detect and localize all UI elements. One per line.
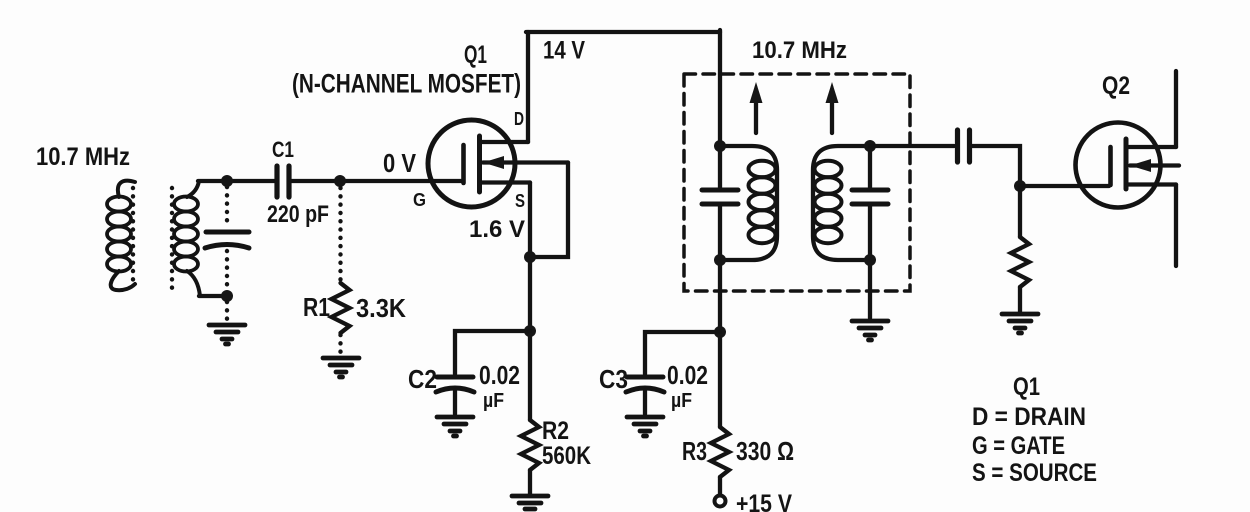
node: T1 primary bottom	[714, 254, 726, 266]
svg-text:C3: C3	[599, 364, 628, 394]
ground (T1 secondary)	[852, 321, 888, 340]
node: R1 junction	[334, 175, 346, 187]
resistor R1 (dotted leads)	[332, 188, 350, 354]
wire: R2 to ground	[528, 470, 532, 494]
svg-text:D = DRAIN: D = DRAIN	[972, 403, 1086, 431]
transistor Q1 (N-channel MOSFET)	[428, 120, 568, 207]
capacitor C3	[626, 377, 664, 414]
svg-text:R3: R3	[682, 436, 707, 466]
wire: supply rail down into transformer	[718, 30, 722, 190]
node: T1 secondary top	[864, 140, 876, 152]
node: source/body junction	[524, 251, 536, 263]
svg-text:Q2: Q2	[1102, 72, 1130, 100]
svg-text:0.02: 0.02	[479, 360, 520, 390]
ground (R1)	[323, 358, 359, 377]
svg-text:10.7 MHz: 10.7 MHz	[36, 143, 130, 171]
node: Q2 gate junction	[1014, 180, 1026, 192]
wire: Q1 body lead down	[530, 163, 568, 258]
node: tank bottom junction	[221, 290, 233, 302]
node: T1 secondary bottom	[864, 254, 876, 266]
wire: Q1 source down	[528, 183, 532, 421]
svg-text:R2: R2	[542, 417, 569, 445]
node: T1 primary top	[714, 140, 726, 152]
ground (R2)	[512, 496, 548, 509]
wire: Q2 drain up	[1174, 71, 1178, 147]
svg-text:µF: µF	[671, 390, 692, 412]
inductor T1 secondary coil	[813, 146, 870, 260]
ground (C2)	[437, 417, 473, 436]
svg-text:0 V: 0 V	[383, 148, 417, 178]
svg-text:C2: C2	[408, 364, 437, 394]
svg-text:220 pF: 220 pF	[267, 201, 329, 228]
wire: T1 secondary to C4	[870, 144, 954, 148]
ground (input tank)	[209, 325, 245, 344]
svg-text:C1: C1	[272, 137, 294, 162]
resistor R3	[711, 427, 729, 477]
ground (R4)	[1002, 314, 1038, 333]
wire: C1 to Q1 gate	[291, 179, 461, 183]
wire: to C2	[455, 331, 530, 374]
wire: Q1 drain up	[526, 32, 530, 142]
capacitor C4 (coupling)	[958, 130, 970, 162]
wire: R4 to ground	[1018, 287, 1022, 312]
capacitor C2	[436, 377, 474, 414]
svg-text:3.3K: 3.3K	[356, 293, 406, 323]
capacitor (input tank, dotted branch)	[205, 187, 249, 292]
inductor L1 primary winding	[107, 181, 135, 291]
transformer T1 dashed enclosure	[684, 74, 910, 291]
svg-text:(N-CHANNEL MOSFET): (N-CHANNEL MOSFET)	[292, 69, 521, 99]
inductor T1 primary coil	[720, 146, 777, 260]
wire: gate junction to Q2	[1020, 184, 1109, 188]
terminal +15 V	[715, 496, 726, 507]
svg-text:Q1: Q1	[464, 41, 487, 69]
wire: dotted lead to ground	[225, 302, 229, 322]
svg-text:10.7 MHz: 10.7 MHz	[752, 37, 847, 64]
resistor R2	[521, 420, 539, 470]
arrow (tuning, left)	[750, 82, 763, 133]
wire: tank line below cap	[718, 206, 722, 427]
transistor Q2 (MOSFET)	[1076, 123, 1180, 208]
wire: secondary bottom to tank node	[199, 294, 228, 298]
svg-text:S = SOURCE: S = SOURCE	[972, 459, 1097, 487]
arrow (tuning, right)	[826, 82, 839, 133]
svg-text:S: S	[515, 191, 525, 211]
wire: 14V supply rail	[526, 30, 720, 34]
svg-text:R1: R1	[303, 292, 330, 322]
node: C2 junction	[524, 325, 536, 337]
capacitor C1	[277, 166, 289, 197]
capacitor (T1 primary tank)	[702, 190, 738, 204]
wire: secondary top to C1	[198, 179, 275, 183]
wire: junction to R4	[1018, 186, 1022, 237]
node: C3 junction	[714, 326, 726, 338]
capacitor (T1 secondary tank)	[852, 146, 888, 318]
svg-text:0.02: 0.02	[667, 360, 708, 390]
resistor R4 (Q2 gate)	[1011, 237, 1029, 287]
wire: C4 to Q2 gate	[972, 146, 1020, 186]
wire: Q2 source down	[1174, 185, 1178, 267]
svg-text:330 Ω: 330 Ω	[736, 436, 794, 466]
svg-text:D: D	[514, 109, 524, 129]
svg-text:1.6 V: 1.6 V	[469, 216, 525, 243]
svg-text:G = GATE: G = GATE	[972, 432, 1065, 460]
svg-text:G: G	[413, 190, 426, 210]
svg-text:Q1: Q1	[1013, 373, 1040, 401]
wire: to C3	[645, 332, 720, 374]
node: tank top junction	[221, 175, 233, 187]
svg-text:+15 V: +15 V	[736, 490, 792, 512]
svg-text:14 V: 14 V	[543, 37, 585, 65]
svg-text:560K: 560K	[542, 442, 591, 470]
inductor L1 secondary winding	[172, 181, 200, 296]
ground (C3)	[627, 417, 663, 436]
svg-text:µF: µF	[483, 390, 504, 412]
wire: R3 to +15V terminal	[718, 477, 722, 495]
